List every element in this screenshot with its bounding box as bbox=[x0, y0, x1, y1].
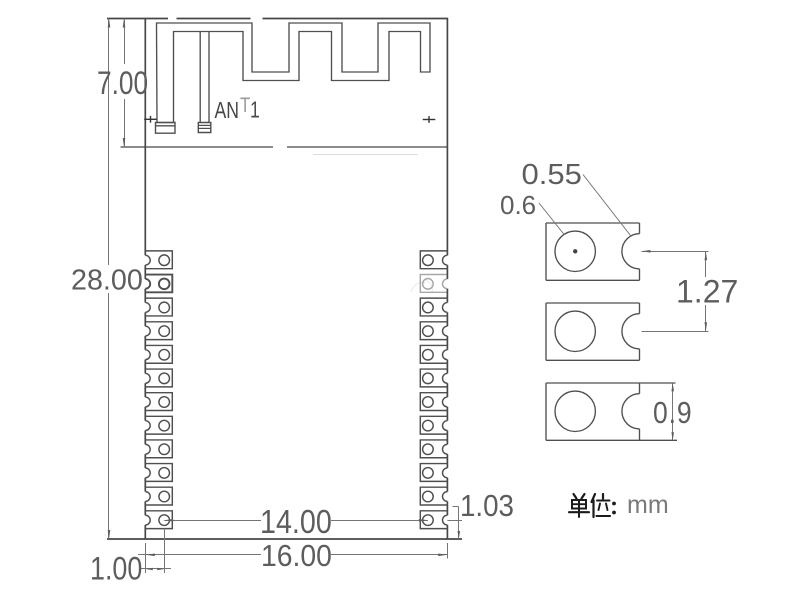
svg-text:0.9: 0.9 bbox=[653, 396, 692, 430]
svg-text:T: T bbox=[240, 94, 251, 117]
svg-text:0.55: 0.55 bbox=[522, 159, 582, 191]
svg-text:mm: mm bbox=[627, 491, 669, 519]
svg-text:0.6: 0.6 bbox=[500, 190, 536, 220]
svg-text:28.00: 28.00 bbox=[71, 264, 143, 296]
svg-text:1.00: 1.00 bbox=[90, 551, 142, 587]
svg-text:7.00: 7.00 bbox=[97, 67, 148, 102]
svg-text:1.27: 1.27 bbox=[676, 274, 738, 310]
svg-text:14.00: 14.00 bbox=[260, 503, 332, 540]
svg-text:AN: AN bbox=[215, 98, 239, 124]
svg-text:16.00: 16.00 bbox=[261, 539, 332, 573]
svg-text:1.03: 1.03 bbox=[460, 490, 514, 523]
svg-text:1: 1 bbox=[250, 97, 260, 123]
